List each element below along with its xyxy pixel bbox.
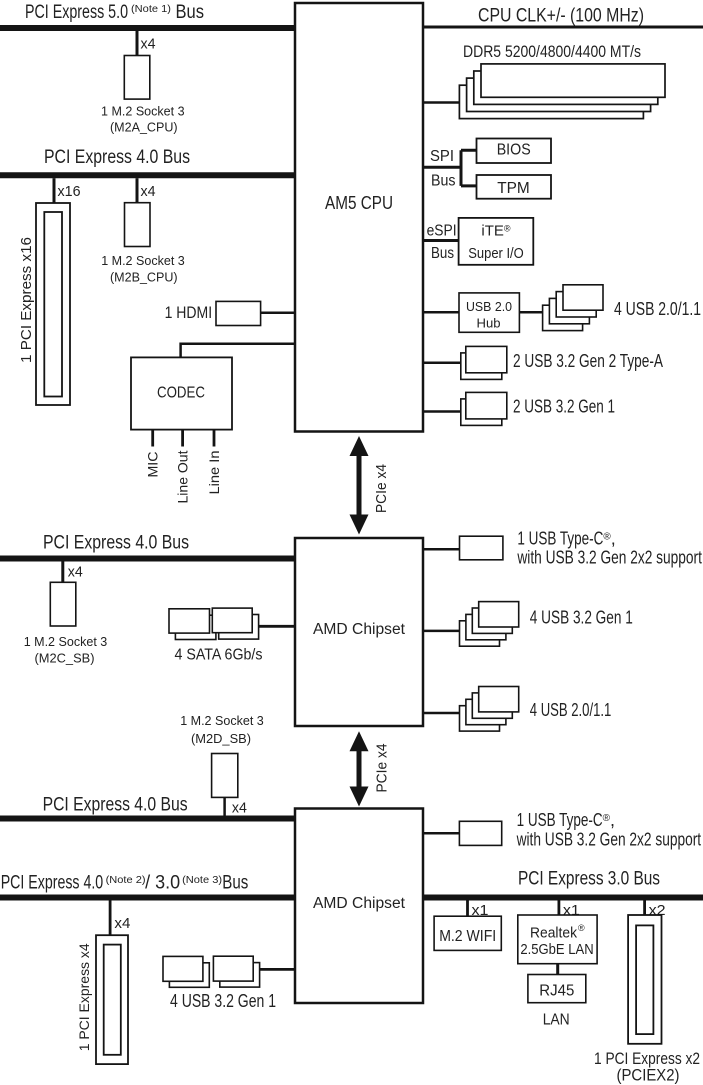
svg-text:PCI Express 4.0 Bus: PCI Express 4.0 Bus (43, 795, 188, 816)
wire chipset1 to USB Type-C (423, 548, 460, 551)
label M2C_SB (24, 634, 108, 666)
label SPI Bus (430, 148, 456, 190)
pin Line Out (181, 430, 184, 447)
svg-text:Bus: Bus (431, 245, 454, 262)
svg-text:Line In: Line In (206, 451, 222, 495)
svg-text:LAN: LAN (543, 1012, 570, 1029)
TPM box (477, 175, 552, 199)
USB 2.0 Hub box (459, 293, 519, 332)
svg-text:4 USB 3.2 Gen 1: 4 USB 3.2 Gen 1 (170, 991, 276, 1011)
svg-text:x4: x4 (141, 36, 156, 53)
wire USB pair to chipset2 (260, 968, 295, 971)
svg-text:eSPI: eSPI (427, 223, 457, 240)
connector HDMI (216, 301, 261, 325)
port USB Type-C (chipset2) (459, 821, 501, 845)
svg-text:MIC: MIC (145, 452, 161, 478)
svg-text:Hub: Hub (477, 316, 501, 331)
bus PCI Express 3.0 (right bottom) (423, 895, 703, 901)
svg-text:CPU CLK+/- (100 MHz): CPU CLK+/- (100 MHz) (478, 6, 644, 27)
svg-text:4 USB 2.0/1.1: 4 USB 2.0/1.1 (530, 700, 612, 720)
wire x4 to M2B (136, 178, 139, 203)
svg-text:USB 2.0: USB 2.0 (466, 299, 512, 314)
label M2D_SB (180, 713, 264, 746)
svg-text:(M2A_CPU): (M2A_CPU) (110, 120, 178, 135)
svg-text:/ 3.0: / 3.0 (145, 873, 180, 894)
svg-text:1 HDMI: 1 HDMI (165, 304, 213, 322)
svg-text:(M2D_SB): (M2D_SB) (191, 731, 251, 746)
svg-text:1 M.2 Socket 3: 1 M.2 Socket 3 (101, 253, 185, 268)
wire HDMI to CPU (261, 311, 295, 314)
svg-text:1 PCI Express x16: 1 PCI Express x16 (18, 237, 35, 363)
wire x1 to M.2 WIFI (466, 901, 469, 917)
BIOS box (477, 139, 552, 164)
wire x2 to PCIEX2 slot (643, 901, 646, 916)
svg-text:PCI Express 4.0: PCI Express 4.0 (1, 873, 104, 894)
svg-text:x4: x4 (114, 915, 130, 932)
svg-text:x4: x4 (232, 800, 247, 817)
svg-text:Realtek: Realtek (530, 925, 577, 942)
svg-text:PCIe x4: PCIe x4 (373, 744, 390, 793)
wire x1 to Realtek LAN (558, 901, 561, 916)
bus PCI Express 4.0 (second bus) (0, 172, 295, 178)
svg-text:Super I/O: Super I/O (468, 245, 524, 262)
AMD Chipset box 2 (295, 809, 423, 1004)
CPU box U1 (295, 3, 423, 432)
port stack 4 USB 2.0/1.1 (CPU) (543, 285, 603, 331)
wire x16 to PCIe slot (53, 178, 56, 203)
port stack 2 USB 3.2 Gen 1 (461, 392, 507, 425)
connector M2D_SB (212, 754, 238, 798)
svg-text:1 M.2 Socket 3: 1 M.2 Socket 3 (101, 103, 185, 118)
svg-text:PCIe x4: PCIe x4 (373, 464, 390, 513)
wire M2D to bus (223, 797, 226, 815)
arrow PCIe x4 (CPU to chipset) (350, 436, 369, 535)
connector M2C_SB (50, 582, 76, 626)
wire CPU to USB 3.2 Gen 1 ports (423, 410, 461, 413)
wire CPU to CODEC (181, 344, 295, 358)
svg-text:Line Out: Line Out (175, 450, 191, 503)
label M2A_CPU (101, 103, 185, 134)
port stack 4 SATA 6Gb/s (169, 608, 259, 639)
wire SPI bus bracket (423, 150, 477, 186)
svg-text:PCI Express 5.0: PCI Express 5.0 (25, 2, 128, 23)
DIMM stack (4 DDR5 slots) (459, 64, 665, 119)
slot PCI Express x4 (96, 935, 128, 1064)
label iTE Super I/O (468, 223, 524, 262)
svg-text:(Note 2): (Note 2) (106, 874, 146, 886)
label 1 PCI Express x2 (PCIEX2) (594, 1050, 700, 1085)
svg-text:(M2C_SB): (M2C_SB) (35, 651, 95, 666)
label PCI Express 4.0 (Note 2)/ 3.0 (Note 3)Bus (1, 873, 249, 894)
wire SATA to chipset (259, 625, 295, 628)
label PCI Express 5.0 (Note 1) Bus (25, 2, 204, 23)
connector M2A_CPU (124, 56, 150, 100)
AMD Chipset box 1 (295, 538, 423, 726)
label M2B_CPU (101, 253, 185, 284)
svg-text:x4: x4 (141, 183, 156, 200)
label Realtek 2.5GbE LAN (520, 923, 593, 958)
iTE Super I/O box (459, 218, 534, 265)
svg-text:(M2B_CPU): (M2B_CPU) (110, 269, 178, 284)
slot PCIEX2 (628, 915, 661, 1044)
svg-text:with USB 3.2 Gen 2x2 support: with USB 3.2 Gen 2x2 support (516, 830, 701, 850)
svg-text:4 USB 3.2 Gen 1: 4 USB 3.2 Gen 1 (530, 607, 633, 627)
svg-text:(PCIEX2): (PCIEX2) (617, 1067, 680, 1085)
pin MIC (151, 430, 154, 447)
wire CPU to USB 3.2 Gen 2 Type-A ports (423, 362, 461, 365)
wire chipset1 to 4 USB 2.0/1.1 (423, 712, 460, 715)
bus PCI Express 4.0 (third bus) (0, 556, 295, 562)
svg-text:TPM: TPM (497, 180, 530, 197)
svg-text:2 USB 3.2 Gen 2 Type-A: 2 USB 3.2 Gen 2 Type-A (513, 351, 663, 371)
port stack 4 USB 3.2 Gen 1 (chipset2) (163, 956, 260, 987)
wire chipset2 to USB Type-C (423, 832, 459, 835)
bus PCI Express 5.0 (top horizontal thick bus) (0, 25, 295, 31)
svg-text:Bus: Bus (222, 873, 248, 894)
svg-text:1 PCI Express x4: 1 PCI Express x4 (76, 943, 92, 1051)
svg-text:4 SATA 6Gb/s: 4 SATA 6Gb/s (175, 646, 263, 663)
RJ45 box (528, 975, 586, 1003)
wire x4 to PCIe x4 slot (109, 901, 112, 936)
wire CPU to DDR5 (423, 101, 459, 104)
svg-text:AMD Chipset: AMD Chipset (313, 621, 406, 638)
wire Realtek to RJ45 (556, 964, 559, 975)
M.2 WIFI box (434, 916, 501, 950)
svg-text:1 PCI Express x2: 1 PCI Express x2 (594, 1050, 700, 1068)
port stack 4 USB 3.2 Gen 1 (chipset1) (460, 602, 519, 647)
svg-text:with USB 3.2 Gen 2x2 support: with USB 3.2 Gen 2x2 support (517, 548, 702, 568)
wire x4 to M2C (61, 562, 64, 583)
svg-text:2 USB 3.2 Gen 1: 2 USB 3.2 Gen 1 (513, 396, 615, 416)
wire CPU to USB 2.0 Hub (423, 311, 459, 314)
svg-text:Bus: Bus (431, 173, 456, 190)
svg-text:x16: x16 (58, 183, 81, 200)
connector M2B_CPU (125, 203, 151, 247)
port USB Type-C (chipset1) (460, 536, 503, 560)
svg-text:1 USB Type-C®,: 1 USB Type-C®, (517, 810, 615, 830)
svg-text:BIOS: BIOS (497, 142, 531, 159)
bus PCI Express 4.0 (fourth bus) (0, 816, 295, 822)
slot PCI Express x16 (36, 203, 70, 405)
CODEC box (131, 357, 232, 429)
wire x4 to M2A (136, 31, 139, 56)
svg-text:x4: x4 (68, 564, 83, 581)
arrow PCIe x4 (chipset1 to chipset2) (350, 731, 369, 806)
bus PCI Express 4.0/3.0 (left bottom) (0, 895, 295, 901)
svg-text:®: ® (578, 923, 585, 933)
svg-text:(Note 3): (Note 3) (182, 874, 222, 886)
svg-text:1 M.2 Socket 3: 1 M.2 Socket 3 (180, 713, 264, 728)
svg-text:PCI Express 4.0 Bus: PCI Express 4.0 Bus (43, 533, 189, 554)
label USB 2.0 Hub (466, 299, 512, 331)
port stack 4 USB 2.0/1.1 (chipset1) (460, 687, 519, 732)
svg-text:DDR5 5200/4800/4400 MT/s: DDR5 5200/4800/4400 MT/s (463, 42, 641, 61)
wire chipset1 to 4 USB 3.2 Gen 1 (423, 630, 460, 633)
svg-text:4 USB 2.0/1.1: 4 USB 2.0/1.1 (614, 299, 701, 319)
svg-text:AM5 CPU: AM5 CPU (325, 193, 393, 213)
wire CPU CLK (423, 26, 703, 29)
svg-text:(Note 1): (Note 1) (131, 3, 171, 15)
pin Line In (213, 430, 216, 447)
svg-text:SPI: SPI (430, 148, 454, 165)
wire eSPI (423, 239, 459, 242)
port stack 2 USB 3.2 Gen 2 Type-A (461, 346, 507, 379)
label eSPI Bus (427, 223, 457, 262)
Realtek 2.5GbE LAN box (518, 915, 597, 964)
svg-text:1 USB Type-C®,: 1 USB Type-C®, (517, 529, 615, 549)
svg-text:2.5GbE LAN: 2.5GbE LAN (520, 941, 593, 958)
svg-text:M.2 WIFI: M.2 WIFI (439, 928, 496, 945)
svg-text:CODEC: CODEC (157, 384, 205, 401)
svg-text:RJ45: RJ45 (539, 983, 574, 1000)
wire Hub to USB stack (519, 311, 542, 314)
svg-text:PCI Express 3.0 Bus: PCI Express 3.0 Bus (518, 869, 660, 890)
svg-text:1 M.2 Socket 3: 1 M.2 Socket 3 (24, 634, 108, 649)
label 1 USB Type-C with 2x2 support (chipset1) (517, 529, 702, 568)
svg-text:Bus: Bus (176, 2, 205, 23)
label 1 USB Type-C with 2x2 support (chipset2) (516, 810, 701, 850)
svg-text:PCI Express 4.0 Bus: PCI Express 4.0 Bus (44, 147, 190, 168)
svg-text:AMD Chipset: AMD Chipset (313, 895, 406, 912)
